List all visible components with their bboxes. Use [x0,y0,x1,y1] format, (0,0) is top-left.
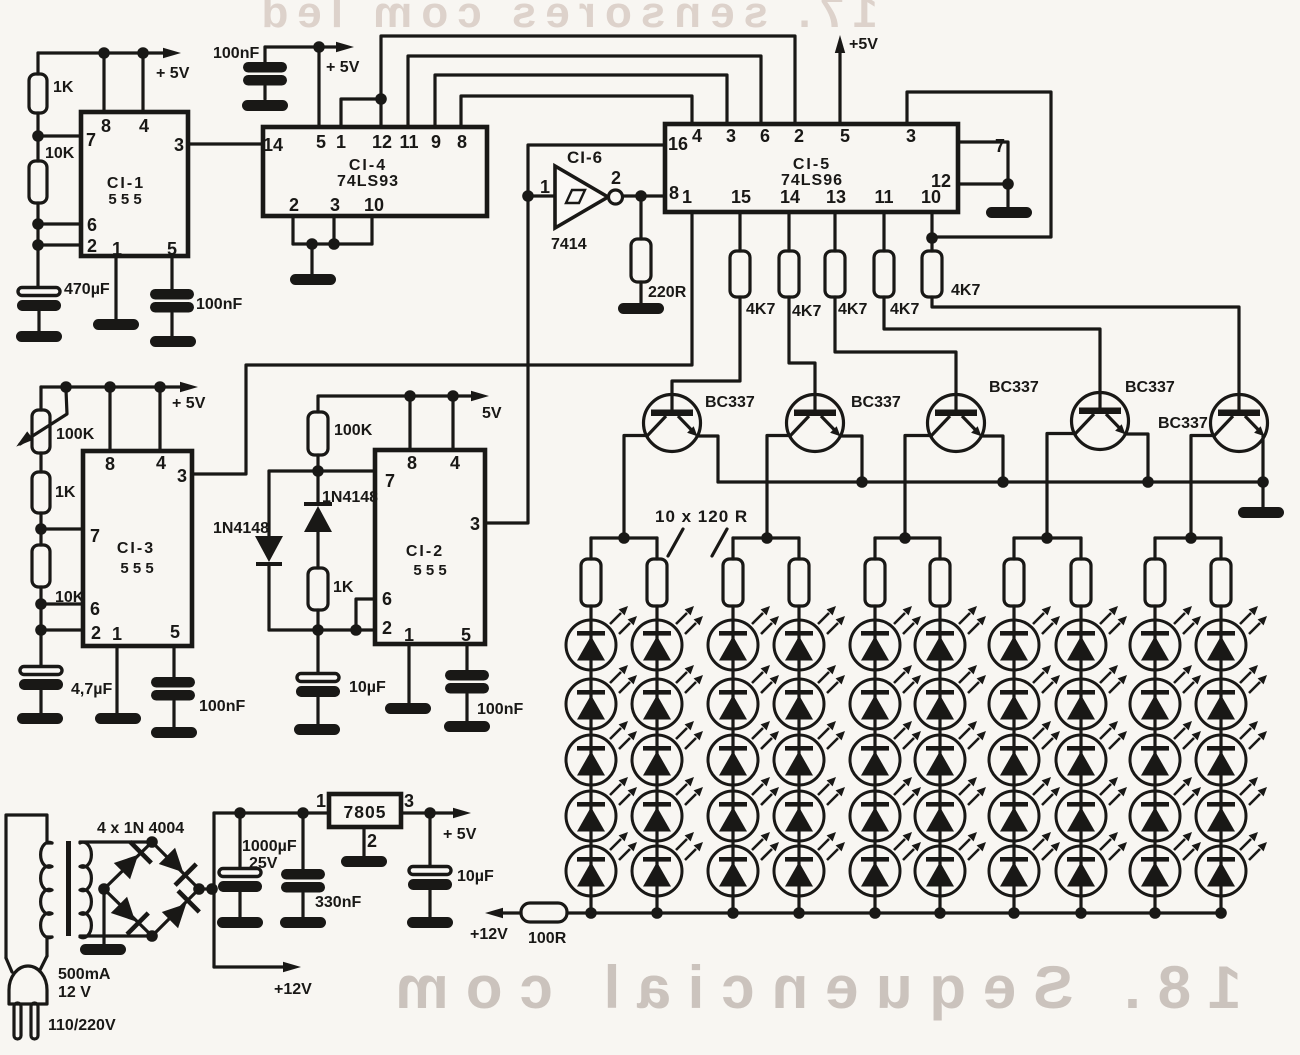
transistor Q5 BC337 [1158,395,1268,539]
capacitor 470uF [16,281,110,342]
svg-text:7: 7 [385,471,395,491]
label 4x1N4004 [97,820,184,837]
wire bridge plus node [199,813,218,967]
svg-text:7: 7 [86,130,96,150]
wire 10K down [36,203,39,288]
transformer secondary [80,842,91,938]
LED D85 [1056,832,1127,896]
svg-text:10µF: 10µF [457,868,494,885]
wire pin13 to Q3 base [835,297,956,410]
label pin 7 (outside) [995,136,1005,156]
+12V arrow (matrix) [470,908,521,943]
transistor Q4 BC337 [1047,379,1175,538]
svg-text:5 5 5: 5 5 5 [108,191,141,208]
svg-text:100nF: 100nF [199,698,245,715]
LED D64 [915,777,986,841]
resistor 120R column 3 [723,538,743,606]
LED D31 [708,606,779,670]
wire CI-5 pin3 to pin10 [907,92,1051,237]
svg-text:6: 6 [760,126,770,146]
wire pin15 to Q1 base [672,297,740,410]
LED D82 [1056,665,1127,729]
resistor 120R column 1 [581,538,601,606]
LED D103 [1196,721,1267,785]
svg-text:+ 5V: + 5V [326,59,360,76]
wire CI-1 pin3 to CI-4 pin14 [188,142,263,145]
svg-text:4 x 1N 4004: 4 x 1N 4004 [97,820,184,837]
wire pin11 to CI-5 pin6 [408,56,761,127]
+12V output arrow [214,962,312,998]
svg-text:3: 3 [177,466,187,486]
resistor 120R column 8 [1071,538,1091,606]
LED D75 [989,832,1060,896]
LED D72 [989,665,1060,729]
LED D65 [915,832,986,896]
svg-text:+ 5V: + 5V [156,65,190,82]
LED D104 [1196,777,1267,841]
IC CI-3 555 box [83,451,192,646]
LED D92 [1130,665,1201,729]
diode 1N4148 (right) [304,489,378,568]
svg-text:18. Sequencial com: 18. Sequencial com [379,954,1242,1021]
resistor 120R column 2 [647,538,667,606]
svg-text:12: 12 [372,132,392,152]
svg-text:1: 1 [404,625,414,645]
transformer primary [41,842,52,938]
+5V rail (CI-1) [38,48,190,82]
LED D53 [850,721,921,785]
svg-text:1: 1 [112,624,122,644]
LED D93 [1130,721,1201,785]
LED D91 [1130,606,1201,670]
wire pin5 to 100nF [170,256,173,290]
wire 1K top [36,53,39,74]
diode D3 (bottom-left) [108,894,148,934]
LED D32 [708,665,779,729]
+5V rail (CI-3) [41,381,206,412]
svg-text:+ 5V: + 5V [443,826,477,843]
+12V LED supply rail [567,907,1227,919]
svg-text:+ 5V: + 5V [172,395,206,412]
svg-text:+12V: +12V [274,981,312,998]
svg-text:3: 3 [470,514,480,534]
inverter CI-6 7414 [540,148,623,253]
svg-text:13: 13 [826,187,846,207]
svg-text:14: 14 [263,135,283,155]
wire pin1 to pin12 [341,93,387,127]
LED D105 [1196,832,1267,896]
wire bridge minus to ground [80,889,126,955]
wire CI-3 pin3 to CI-5 pin1 [192,212,692,474]
svg-text:11: 11 [874,187,893,207]
wire 10K down (CI-3) [39,587,42,667]
svg-text:CI-1: CI-1 [107,175,145,192]
LED D54 [850,777,921,841]
svg-text:3: 3 [726,126,736,146]
svg-text:1: 1 [316,791,326,811]
svg-text:7: 7 [995,136,1005,156]
LED D102 [1196,665,1267,729]
svg-text:4: 4 [139,116,149,136]
wire pin7 [958,142,1008,184]
LED D101 [1196,606,1267,670]
transformer core [66,841,71,936]
node pin6 junction [32,218,81,230]
LED D81 [1056,606,1127,670]
svg-text:8: 8 [101,116,111,136]
svg-text:2: 2 [367,831,377,851]
svg-text:BC337: BC337 [851,394,901,411]
LED D23 [632,721,703,785]
svg-text:2: 2 [289,195,299,215]
node pin6 junction (CI-3) [35,598,83,610]
LED D13 [566,721,637,785]
svg-text:3: 3 [330,195,340,215]
svg-text:+5V: +5V [849,36,878,53]
svg-text:5 5 5: 5 5 5 [413,562,446,579]
transistor Q3 BC337 [905,379,1039,538]
svg-text:4,7µF: 4,7µF [71,681,112,698]
resistor 120R column 9 [1145,538,1165,606]
wire pin1 ground (CI-2) [385,644,431,714]
svg-text:1N4148: 1N4148 [322,489,378,506]
svg-text:4K7: 4K7 [951,282,980,299]
resistor 100R [521,903,567,947]
svg-text:1N4148: 1N4148 [213,520,269,537]
svg-text:2: 2 [91,623,101,643]
LED D71 [989,606,1060,670]
label 110/220V [48,1017,116,1034]
LED D12 [566,665,637,729]
svg-text:2: 2 [794,126,804,146]
svg-text:100R: 100R [528,930,567,947]
LED D62 [915,665,986,729]
capacitor 1000uF 25V [217,813,297,928]
wire pin12 to CI-5 pin2 [381,36,795,127]
svg-text:9: 9 [431,132,441,152]
LED D63 [915,721,986,785]
LED D73 [989,721,1060,785]
svg-text:3: 3 [174,135,184,155]
LED D41 [774,606,845,670]
resistor 100K (CI-2) [308,412,373,455]
svg-text:3: 3 [404,791,414,811]
svg-text:10K: 10K [45,145,75,162]
+5V arrow (CI-5 pin5) [835,35,878,124]
wire LED pair 1 top bracket [591,532,657,544]
svg-text:100K: 100K [56,426,95,443]
svg-text:14: 14 [780,187,800,207]
svg-text:1K: 1K [333,579,354,596]
wire pin4 to +5V [137,47,149,112]
node pin7 junction [32,130,81,142]
svg-text:10 x 120 R: 10 x 120 R [655,507,748,526]
svg-text:6: 6 [382,589,392,609]
LED D11 [566,606,637,670]
svg-text:4K7: 4K7 [890,301,919,318]
bridge rectifier frame [98,836,205,942]
LED D45 [774,832,845,896]
svg-text:100K: 100K [334,422,373,439]
svg-text:1: 1 [540,177,550,197]
svg-text:4K7: 4K7 [838,301,867,318]
svg-text:5: 5 [316,132,326,152]
label 500mA 12V [58,966,111,1001]
svg-text:BC337: BC337 [989,379,1039,396]
LED D94 [1130,777,1201,841]
resistor 120R column 6 [930,538,950,606]
resistor 4K7 (pin15) [730,212,775,318]
capacitor 10uF (out) [407,813,494,928]
resistor 220R [618,196,687,314]
capacitor 100nF (top) [213,45,288,111]
wire pin6 (CI-2) [356,599,375,630]
wire LED column 3 [731,606,734,913]
LED D55 [850,832,921,896]
resistor 120R column 5 [865,538,885,606]
LED D14 [566,777,637,841]
svg-text:74LS93: 74LS93 [337,173,399,190]
LED D25 [632,832,703,896]
resistor 10K [29,145,75,203]
svg-text:15: 15 [731,187,751,207]
wire LED column 4 [797,606,800,913]
diode D4 (bottom-right) [159,891,199,931]
LED D61 [915,606,986,670]
diode 1N4148 (left) [213,471,318,630]
svg-text:5: 5 [840,126,850,146]
LED D35 [708,832,779,896]
svg-text:1K: 1K [53,79,74,96]
label 10x120R with callouts [655,507,748,556]
svg-text:10: 10 [364,195,384,215]
LED D21 [632,606,703,670]
wire CI-2 pin3 up to CI-6 input [485,145,665,523]
svg-text:330nF: 330nF [315,894,361,911]
LED D43 [774,721,845,785]
potentiometer 100K [13,387,95,453]
wire 1K to 10K [39,513,42,545]
wire LED pair 4 top bracket [1014,532,1081,544]
AC plug [6,815,47,1039]
ghost print-through (decorative) [252,0,1241,1021]
transistor Q2 BC337 [767,394,901,538]
wire bottom node to pin2 [269,624,375,636]
+5V rail (CI-4) [265,41,360,76]
node CI-6 input [522,190,555,202]
svg-text:CI-2: CI-2 [406,543,444,560]
svg-text:4K7: 4K7 [746,301,775,318]
resistor 4K7 (pin11) [874,212,919,318]
wire LED column 6 [938,606,941,913]
LED D95 [1130,832,1201,896]
wire pin8 up (CI-3) [108,387,111,451]
resistor 1K (CI-3) [32,472,76,513]
svg-text:8: 8 [407,453,417,473]
svg-text:100nF: 100nF [196,296,242,313]
wire 1K to 10K [36,113,39,161]
wire LED pair 5 top bracket [1155,532,1221,544]
capacitor 330nF [280,813,361,928]
node pin7 junction (CI-3) [35,523,83,535]
svg-text:2: 2 [611,168,621,188]
svg-text:6: 6 [87,215,97,235]
+5V rail (CI-2) [318,390,502,422]
svg-text:470µF: 470µF [64,281,110,298]
wire pin8 to CI-5 pin4 [461,96,692,127]
svg-text:CI-6: CI-6 [567,148,603,167]
svg-text:BC337: BC337 [705,394,755,411]
svg-text:100nF: 100nF [213,45,259,62]
wire secondary top to bridge [80,840,152,843]
svg-text:2: 2 [382,618,392,638]
resistor 4K7 (pin13) [825,212,867,318]
svg-text:1: 1 [336,132,346,152]
svg-text:CI-3: CI-3 [117,540,155,557]
wire pin14 to Q2 base [789,297,815,410]
LED D42 [774,665,845,729]
wire pin8 to +5V [98,47,110,112]
svg-text:8: 8 [457,132,467,152]
capacitor 100nF (CI-1 pin5) [150,289,242,347]
node 100K/pin7 junction [312,455,375,502]
wire LED pair 2 top bracket [733,532,799,544]
wire pin9 to CI-5 pin3 [435,75,727,127]
resistor 120R column 4 [789,538,809,606]
wire 7805 pin2 ground [341,827,387,867]
resistor 120R column 7 [1004,538,1024,606]
wire pin4 up (CI-3) [158,387,161,451]
wire LED column 10 [1219,606,1222,913]
IC CI-5 74LS96 box [665,124,958,212]
op IC CI-1 555 box [81,112,188,259]
emitter ground rail [718,476,1284,518]
svg-text:8: 8 [669,183,679,203]
wire pin5 up [317,47,320,127]
svg-text:4: 4 [450,453,460,473]
wire pin4 up (CI-2) [451,396,454,450]
wire pin1 ground (CI-3) [95,646,141,724]
wire pin12 to ground [958,178,1032,218]
svg-text:5 5 5: 5 5 5 [120,560,153,577]
LED D34 [708,777,779,841]
svg-text:5: 5 [170,622,180,642]
LED D52 [850,665,921,729]
+5V output arrow [401,807,477,843]
svg-text:BC337: BC337 [1158,415,1208,432]
capacitor 10uF [294,630,386,735]
LED D51 [850,606,921,670]
IC CI-2 555 box [375,450,485,645]
svg-text:500mA: 500mA [58,966,111,983]
svg-text:17. sensores com led: 17. sensores com led [252,0,877,37]
wires CI-4 pins 2,3,10 to ground [290,216,372,285]
svg-text:10µF: 10µF [349,679,386,696]
wire LED column 2 [655,606,658,913]
wire LED column 1 [589,606,592,913]
wire pin1 to ground [93,256,139,330]
svg-text:7805: 7805 [344,802,387,822]
IC CI-4 74LS93 box [263,127,487,216]
svg-text:4K7: 4K7 [792,303,821,320]
resistor 1K [29,74,74,113]
resistor 4K7 (pin10) [922,212,980,299]
wire pin8 up (CI-2) [408,396,411,450]
node pin2 junction [32,239,81,251]
wire CI-6 output to CI-5 pin8 [623,190,665,202]
resistor 10K (CI-3) [32,545,85,606]
LED D83 [1056,721,1127,785]
svg-text:4: 4 [156,453,166,473]
svg-text:BC337: BC337 [1125,379,1175,396]
svg-text:12 V: 12 V [58,984,91,1001]
capacitor 100nF (CI-3 pin5) [151,646,245,738]
svg-text:1K: 1K [55,484,76,501]
svg-text:220R: 220R [648,284,687,301]
svg-text:7: 7 [90,526,100,546]
svg-text:7414: 7414 [551,236,587,253]
transistor Q1 BC337 [624,394,755,538]
LED D22 [632,665,703,729]
resistor 1K (CI-2) [308,568,354,632]
LED D84 [1056,777,1127,841]
svg-text:3: 3 [906,126,916,146]
wire LED column 5 [873,606,876,913]
LED D24 [632,777,703,841]
svg-text:1000µF: 1000µF [242,838,297,855]
wire LED column 7 [1012,606,1015,913]
svg-text:6: 6 [90,599,100,619]
wire pin11 to Q4 base [884,297,1100,408]
svg-text:1: 1 [682,187,692,207]
wire pin10 to Q5 base [932,297,1239,410]
svg-text:5V: 5V [482,405,502,422]
wire secondary bottom to bridge [80,934,152,937]
wire LED column 9 [1153,606,1156,913]
LED D74 [989,777,1060,841]
regulator 7805 [316,791,414,851]
capacitor 4,7uF [17,667,112,725]
svg-text:110/220V: 110/220V [48,1017,116,1034]
svg-text:CI-4: CI-4 [349,157,387,174]
capacitor 100nF (CI-2 pin5) [444,644,523,732]
LED D33 [708,721,779,785]
svg-text:11: 11 [399,132,418,152]
wire LED pair 3 top bracket [875,532,940,544]
diode D1 (top-left) [111,842,151,882]
svg-text:CI-5: CI-5 [793,156,831,173]
svg-text:+12V: +12V [470,926,508,943]
svg-text:4: 4 [692,126,702,146]
svg-text:16: 16 [668,134,688,154]
diode D2 (top-right) [156,845,196,885]
LED D15 [566,832,637,896]
resistor 4K7 (pin14) [779,212,821,320]
svg-text:8: 8 [105,454,115,474]
wire LED column 8 [1079,606,1082,913]
DC rail to 7805 [214,807,329,819]
svg-text:100nF: 100nF [477,701,523,718]
wire pot to 1K [39,453,42,472]
node pin2 junction (CI-3) [35,624,83,636]
resistor 120R column 10 [1211,538,1231,606]
svg-text:10: 10 [921,187,941,207]
LED D44 [774,777,845,841]
svg-text:2: 2 [87,236,97,256]
svg-text:5: 5 [461,625,471,645]
svg-text:25V: 25V [249,855,278,872]
